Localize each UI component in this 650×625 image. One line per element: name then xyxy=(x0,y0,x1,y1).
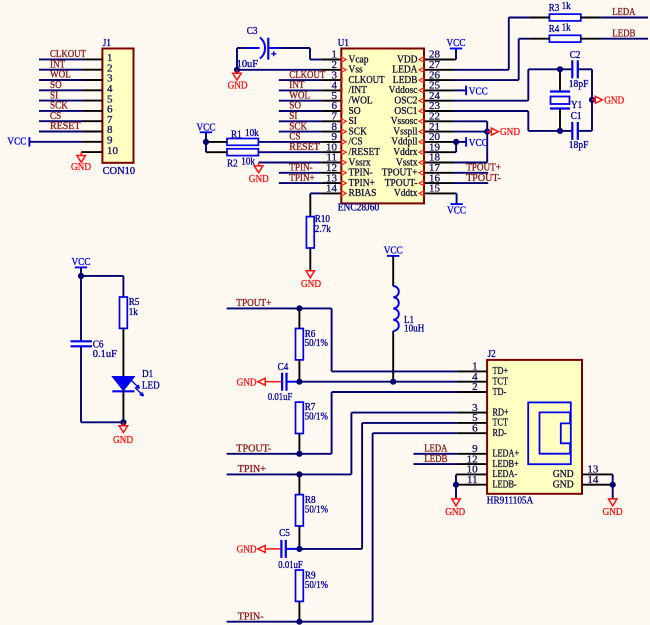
R5 value label 1k xyxy=(129,306,139,318)
resistor R10 xyxy=(306,217,314,248)
net label SO xyxy=(50,79,62,91)
R8 value label 50/1% xyxy=(305,504,328,516)
power port VCC (J1 pin 9) xyxy=(7,135,29,147)
wire U1 pin 26 to R4 xyxy=(454,39,529,80)
svg-text:TPIN+: TPIN+ xyxy=(289,172,314,184)
C6 value label 0.1uF xyxy=(93,348,117,360)
R10 value label 2.7k xyxy=(315,223,331,235)
net label SCK xyxy=(50,100,68,112)
node TPOUT-/R7 junction xyxy=(296,451,302,457)
J2 pin 9 (LEDA+) xyxy=(457,443,519,460)
wire net TPOUT- (left) xyxy=(227,453,332,455)
wire R10 to ground xyxy=(309,248,311,271)
svg-text:LED: LED xyxy=(142,380,160,392)
R10 designator label xyxy=(315,213,331,225)
U1 pin 21 (Vsspll) xyxy=(393,121,454,138)
net label SCK (U1) xyxy=(289,120,307,132)
svg-text:R3: R3 xyxy=(549,2,560,14)
svg-text:GND: GND xyxy=(445,506,465,518)
svg-text:ENC28J60: ENC28J60 xyxy=(338,202,380,214)
L1 designator label xyxy=(404,314,414,326)
J2 pin 12 (LEDB+) xyxy=(457,453,519,470)
svg-text:VCC: VCC xyxy=(447,37,466,49)
J2 pin 6 (RD-) xyxy=(457,422,507,439)
svg-text:GND: GND xyxy=(301,278,321,290)
svg-text:J2: J2 xyxy=(488,348,496,360)
wire C3 to U1 pin 1 xyxy=(279,48,321,60)
U1 pin 9 (/CS) xyxy=(321,131,362,148)
wire U1 pin 24 (OSC2) to crystal xyxy=(454,69,528,100)
J1 pin 10 xyxy=(83,145,119,157)
J1 pin 9 xyxy=(83,135,113,147)
wire U1 pin 23 (OSC1) to crystal xyxy=(454,111,528,131)
wire net LEDB (J2 pin 12) xyxy=(414,463,457,465)
svg-text:LEDB: LEDB xyxy=(612,27,635,39)
svg-text:18pF: 18pF xyxy=(569,139,589,151)
svg-text:VCC: VCC xyxy=(197,122,216,134)
wire C6 to ground rail xyxy=(81,346,123,422)
U1 pin 11 (Vssrx) xyxy=(321,152,371,169)
capacitor C6 xyxy=(71,341,93,346)
net label TPOUT- (U1) xyxy=(466,172,501,184)
svg-text:TPIN+: TPIN+ xyxy=(238,463,266,475)
node crystal GND junction xyxy=(589,97,595,103)
U1 pin 14 (RBIAS) xyxy=(321,183,376,200)
svg-text:VCC: VCC xyxy=(72,256,91,268)
svg-text:TPOUT-: TPOUT- xyxy=(466,172,501,184)
U1 pin 16 (TPOUT-) xyxy=(385,172,454,189)
R4 value label 1k xyxy=(562,21,572,33)
U1 pin 20 (Vddpll) xyxy=(391,131,454,148)
power port VCC (U1 pin 15) xyxy=(447,204,466,217)
svg-text:CON10: CON10 xyxy=(103,165,136,177)
C2 value label 18pF xyxy=(569,78,589,90)
wire junction to R5 xyxy=(81,276,123,297)
wire TPIN- to J2 RD- (pin 6) xyxy=(373,433,457,622)
ground (crystal) xyxy=(592,94,624,106)
wire VCC to junction xyxy=(80,267,82,276)
U1 pin 27 (LEDA) xyxy=(392,59,454,76)
wire U1 pin 25 to VCC xyxy=(454,89,466,91)
wire J1 pin 10 to ground xyxy=(81,151,83,153)
svg-text:2.7k: 2.7k xyxy=(315,223,331,235)
svg-text:C3: C3 xyxy=(247,25,258,37)
U1 value label ENC28J60 xyxy=(338,202,380,214)
net label INT (U1) xyxy=(289,79,304,91)
net label LEDA (J2) xyxy=(424,443,447,455)
net label TPOUT+ (left) xyxy=(236,297,271,309)
svg-text:50/1%: 50/1% xyxy=(305,337,328,349)
crystal Y1 xyxy=(550,69,570,131)
R9 designator label xyxy=(305,570,316,582)
U1 pin 12 (TPIN-) xyxy=(321,162,373,179)
J2 pin 2 (TD-) xyxy=(457,381,507,398)
wire R3 to LEDA xyxy=(601,17,648,19)
net label LEDB (J2) xyxy=(424,453,447,465)
U1 pin 1 (Vcap) xyxy=(321,49,369,66)
U1 pin 2 (Vss) xyxy=(321,59,362,76)
wire U1 pin 21 to ground node xyxy=(454,131,487,133)
wire center-tap to J2 TCT (pin 4) xyxy=(299,381,456,383)
resistor R4 xyxy=(529,35,600,42)
wire R4 to LEDB xyxy=(601,38,648,40)
svg-text:LEDB: LEDB xyxy=(424,453,447,465)
svg-text:50/1%: 50/1% xyxy=(305,579,328,591)
connector J2 body xyxy=(487,360,582,494)
svg-text:1k: 1k xyxy=(129,306,139,318)
RJ45 jack graphic (J2) xyxy=(528,402,571,464)
ground (C4) xyxy=(237,377,281,389)
net label WOL xyxy=(50,69,71,81)
wire L1 to center-tap node xyxy=(392,331,394,382)
net label LEDB (top) xyxy=(612,27,635,39)
svg-text:VCC: VCC xyxy=(469,137,488,149)
net label TPOUT+ (U1) xyxy=(466,162,501,174)
U1 pin 13 (TPIN+) xyxy=(321,172,375,189)
wire net SCK (J1 pin 6) xyxy=(39,110,83,112)
svg-text:10: 10 xyxy=(107,145,119,157)
capacitor C4 xyxy=(282,373,299,391)
net label CS (U1) xyxy=(289,131,300,143)
svg-text:GND: GND xyxy=(553,479,574,491)
ground (J2 pins 13/14) xyxy=(603,499,623,518)
ground (R10) xyxy=(301,271,321,290)
R2 value label 10k xyxy=(241,155,255,167)
wire net CLKOUT (U1 pin 3) xyxy=(279,79,322,81)
svg-text:C1: C1 xyxy=(571,110,582,122)
connector J1 xyxy=(102,49,133,163)
wire net TPIN+ (U1 pin 13) xyxy=(279,182,322,184)
wire net SO (U1 pin 6) xyxy=(279,110,322,112)
Y1 designator label xyxy=(571,99,582,111)
wire C5 node to J2 TCT (pin 5) xyxy=(299,423,456,549)
svg-text:U1: U1 xyxy=(338,37,349,49)
svg-text:1k: 1k xyxy=(562,21,572,33)
wire R5 to D1 xyxy=(122,328,124,376)
wire net INT (J1 pin 2) xyxy=(39,69,83,71)
ground (U1 pins 21/22/18) xyxy=(487,126,520,138)
wire net TPIN- (U1 pin 12) xyxy=(279,172,322,174)
node C5/R8/R9 junction xyxy=(296,546,302,552)
net label LEDA (top) xyxy=(612,6,635,18)
svg-text:LEDA: LEDA xyxy=(612,6,635,18)
wire net SO (J1 pin 4) xyxy=(39,89,83,91)
svg-text:VCC: VCC xyxy=(447,205,466,217)
IC U1 body (ENC28J60) xyxy=(341,49,424,204)
net label WOL (U1) xyxy=(289,89,310,101)
D1 value label LED xyxy=(142,380,160,392)
svg-text:RESET: RESET xyxy=(289,141,320,153)
wire GND node to U1 pin 2 xyxy=(237,69,321,71)
wire R1 to U1 pin 9 xyxy=(259,141,321,143)
J1 pin 6 xyxy=(83,104,113,116)
R2 designator label xyxy=(227,158,238,170)
J2 pin 14 (GND) xyxy=(553,474,613,491)
net label CLKOUT (U1) xyxy=(289,69,325,81)
power port VCC (U1 pin 28) xyxy=(447,37,466,49)
net label TPIN+ (left) xyxy=(238,463,266,475)
wire J1 pin 9 to VCC xyxy=(29,141,83,143)
svg-text:TPIN-: TPIN- xyxy=(238,610,264,622)
wire TPOUT+ to J2 TD+ (pin 1) xyxy=(332,308,457,371)
node crystal top junction xyxy=(557,66,563,72)
wire net CLKOUT (J1 pin 1) xyxy=(39,58,83,60)
net label TPIN- (U1) xyxy=(289,162,313,174)
R7 designator label xyxy=(305,401,316,413)
wire TPOUT- to J2 TD- (pin 2) xyxy=(332,392,457,454)
node C3/Vss junction xyxy=(234,67,240,73)
svg-text:18pF: 18pF xyxy=(569,78,589,90)
net label TPOUT- (left) xyxy=(236,443,271,455)
svg-text:GND: GND xyxy=(237,544,257,556)
svg-text:C2: C2 xyxy=(570,49,581,61)
svg-text:0.1uF: 0.1uF xyxy=(93,348,117,360)
resistor R8 xyxy=(296,474,304,549)
J2 pin 3 (RD+) xyxy=(457,402,509,419)
U1 pin 19 (Vddrx) xyxy=(393,141,454,158)
U1 pin 22 (Vssosc) xyxy=(391,111,454,128)
wire TPIN+ to J2 RD+ (pin 3) xyxy=(351,413,456,475)
R8 designator label xyxy=(305,494,316,506)
U1 pin 23 (OSC1) xyxy=(394,100,454,117)
R3 value label 1k xyxy=(562,0,572,12)
svg-text:C5: C5 xyxy=(279,527,290,539)
svg-text:10uH: 10uH xyxy=(404,323,424,335)
net label RESET xyxy=(50,120,81,132)
J2 designator label xyxy=(488,348,496,360)
capacitor C2 xyxy=(572,60,578,78)
U1 pin 28 (VDD) xyxy=(397,49,454,66)
J2 pin 11 (LEDB-) xyxy=(457,474,517,491)
U1 pin 24 (OSC2) xyxy=(394,90,454,107)
resistor R7 xyxy=(296,402,304,454)
net label INT xyxy=(50,58,65,70)
wire junction to C6 xyxy=(80,276,82,341)
wire net TPOUT+ (U1 pin 17) xyxy=(454,172,488,174)
node TPIN+/R8 junction xyxy=(296,471,302,477)
svg-text:GND: GND xyxy=(500,126,520,138)
power port VCC (R1/R2) xyxy=(197,122,216,134)
wire J2 ground stub (right) xyxy=(612,485,614,499)
U1 pin 26 (LEDB) xyxy=(393,69,454,86)
net label TPIN+ (U1) xyxy=(289,172,314,184)
wire net SCK (U1 pin 8) xyxy=(279,131,322,133)
ground (J2 pins 10/11) xyxy=(445,499,465,518)
wire U1 pin 19 to VCC node xyxy=(454,142,456,152)
C4 value label 0.01uF xyxy=(268,391,292,403)
wire crystal bottom rail xyxy=(528,130,592,132)
svg-text:GND: GND xyxy=(228,79,248,91)
svg-text:10k: 10k xyxy=(245,127,259,139)
D1 designator label xyxy=(142,368,153,380)
svg-text:VCC: VCC xyxy=(469,85,488,97)
ground (D1/C6) xyxy=(113,422,133,446)
svg-text:50/1%: 50/1% xyxy=(305,504,328,516)
capacitor C1 xyxy=(572,122,578,140)
C6 designator label xyxy=(93,338,104,350)
LED D1 xyxy=(112,377,143,397)
L1 value label 10uH xyxy=(404,323,424,335)
C1 value label 18pF xyxy=(569,139,589,151)
U1 pin 7 (SI) xyxy=(321,111,357,128)
svg-text:D1: D1 xyxy=(142,368,153,380)
wire U1 pin 28 to VCC xyxy=(454,49,456,60)
wire C3 left to GND node xyxy=(237,48,248,70)
net label SO (U1) xyxy=(289,100,301,112)
U1 pin 18 (Vsstx) xyxy=(396,152,454,169)
R1 designator label xyxy=(231,129,242,141)
wire VCC to R1/R2 xyxy=(205,132,207,152)
wire net SI (U1 pin 7) xyxy=(279,120,322,122)
svg-text:RD-: RD- xyxy=(493,427,507,439)
svg-text:R2: R2 xyxy=(227,158,238,170)
power port VCC (L1) xyxy=(384,244,403,256)
U1 pin 8 (SCK) xyxy=(321,121,367,138)
J1 pin 4 xyxy=(83,83,113,95)
C4 designator label xyxy=(278,361,289,373)
C5 designator label xyxy=(279,527,290,539)
wire J2 pin 10 to ground xyxy=(455,474,458,484)
net label CS xyxy=(50,110,61,122)
svg-text:0.01uF: 0.01uF xyxy=(268,391,292,403)
U1 pin 3 (CLKOUT) xyxy=(321,69,384,86)
node L1/TCT junction xyxy=(390,379,396,385)
wire J2 pin 13 to ground xyxy=(612,474,614,484)
node D1/C6 ground junction xyxy=(120,419,126,425)
resistor R9 xyxy=(296,570,304,622)
ground (U1 pin 11 Vssrx) xyxy=(249,163,269,185)
svg-text:TPOUT+: TPOUT+ xyxy=(236,297,271,309)
R6 value label 50/1% xyxy=(305,337,328,349)
wire D1 to ground node xyxy=(122,391,124,422)
node J2 pins 10/11 junction xyxy=(453,482,459,488)
wire net INT (U1 pin 4) xyxy=(279,89,322,91)
svg-text:GND: GND xyxy=(113,434,133,446)
wire U1 pin 22 to ground node xyxy=(454,121,487,131)
J2 pin 13 (GND) xyxy=(553,464,613,481)
wire net WOL (J1 pin 3) xyxy=(39,79,83,81)
C5 value label 0.01uF xyxy=(278,559,302,571)
svg-text:GND: GND xyxy=(603,506,623,518)
power port VCC (U1 pins 20/19) xyxy=(466,137,488,149)
wire net RESET (J1 pin 8) xyxy=(39,131,83,133)
U1 pin 10 (/RESET) xyxy=(321,141,380,158)
svg-text:R1: R1 xyxy=(231,129,242,141)
svg-text:VCC: VCC xyxy=(384,244,403,256)
wire VCC to L1 xyxy=(392,256,394,286)
wire net TPOUT+ (left) xyxy=(227,307,332,309)
svg-text:11: 11 xyxy=(467,474,478,486)
node U1 pins 20/19 junction xyxy=(453,139,459,145)
svg-text:14: 14 xyxy=(326,183,338,195)
wire J2 ground stub (left) xyxy=(455,485,457,499)
wire net CS (J1 pin 7) xyxy=(39,120,83,122)
svg-text:10uF: 10uF xyxy=(237,58,259,70)
J1 pin 3 xyxy=(83,73,113,85)
wire U1 pin 14 to R10 xyxy=(310,193,321,216)
node TPOUT+/R6 junction xyxy=(296,305,302,311)
svg-text:GND: GND xyxy=(71,161,91,173)
svg-text:6: 6 xyxy=(472,422,478,434)
U1 pin 4 (/INT) xyxy=(321,80,367,97)
ground (C5) xyxy=(237,544,281,556)
J2 value label HR911105A xyxy=(487,495,533,507)
R5 designator label xyxy=(129,296,140,308)
capacitor C3 xyxy=(248,37,279,59)
J1 value label CON10 xyxy=(103,165,136,177)
wire crystal right rail xyxy=(591,69,593,131)
wire crystal top rail xyxy=(528,68,592,70)
J1 pin 7 xyxy=(83,114,113,126)
U1 pin 17 (TPOUT+) xyxy=(382,162,454,179)
U1 pin 6 (SO) xyxy=(321,100,360,117)
net label CLKOUT xyxy=(50,48,86,60)
J2 pin 4 (TCT) xyxy=(457,371,509,388)
R9 value label 50/1% xyxy=(305,579,328,591)
U1 designator label xyxy=(338,37,349,49)
R1 value label 10k xyxy=(245,127,259,139)
resistor R3 xyxy=(529,14,600,21)
J2 pin 10 (LEDA-) xyxy=(457,464,518,481)
net label SI (U1) xyxy=(289,110,297,122)
wire U1 pin 20 to VCC node xyxy=(454,141,466,143)
wire U1 pin 18 to ground node xyxy=(454,132,487,163)
ground (J1 pin 10) xyxy=(71,152,91,173)
net label TPIN- (left) xyxy=(238,610,264,622)
J2 pin 1 (TD+) xyxy=(457,361,509,378)
svg-text:Vddtx: Vddtx xyxy=(394,187,418,199)
R6 designator label xyxy=(305,328,316,340)
wire net TPIN+ (left) xyxy=(227,473,352,475)
svg-text:R4: R4 xyxy=(549,23,560,35)
inductor L1 xyxy=(393,286,399,331)
R3 designator label xyxy=(549,2,560,14)
svg-text:TPOUT-: TPOUT- xyxy=(236,443,271,455)
node TPIN-/R9 junction xyxy=(296,619,302,625)
svg-text:1k: 1k xyxy=(562,0,572,12)
svg-text:TD-: TD- xyxy=(493,386,507,398)
wire net TPOUT- (U1 pin 16) xyxy=(454,182,488,184)
resistor R6 xyxy=(296,308,304,381)
wire U1 pin 11 to ground xyxy=(259,162,322,164)
wire net SI (J1 pin 5) xyxy=(39,100,83,102)
svg-text:RESET: RESET xyxy=(50,120,81,132)
net label RESET (U1) xyxy=(289,141,320,153)
capacitor C5 xyxy=(281,540,299,558)
svg-text:14: 14 xyxy=(587,474,599,486)
power port VCC (R5/C6) xyxy=(72,256,91,268)
node J2 pins 13/14 junction xyxy=(610,482,616,488)
J2 pin 5 (TCT) xyxy=(457,412,509,429)
node crystal bottom junction xyxy=(557,128,563,134)
wire net LEDA (J2 pin 9) xyxy=(414,453,457,455)
ground (C3) xyxy=(228,70,248,92)
svg-text:15: 15 xyxy=(429,183,441,195)
R7 value label 50/1% xyxy=(305,410,328,422)
svg-text:VCC: VCC xyxy=(7,135,26,147)
svg-text:C4: C4 xyxy=(278,361,289,373)
J1 pin 5 xyxy=(83,93,113,105)
C3 designator label xyxy=(247,25,258,37)
J1 designator label xyxy=(103,37,111,49)
wire U1 pin 27 to R3 xyxy=(454,18,529,70)
svg-text:GND: GND xyxy=(249,173,269,185)
svg-text:50/1%: 50/1% xyxy=(305,410,328,422)
U1 pin 15 (Vddtx) xyxy=(394,183,454,200)
resistor R1 xyxy=(206,139,258,146)
svg-text:RBIAS: RBIAS xyxy=(349,187,377,199)
resistor R5 xyxy=(120,297,128,328)
